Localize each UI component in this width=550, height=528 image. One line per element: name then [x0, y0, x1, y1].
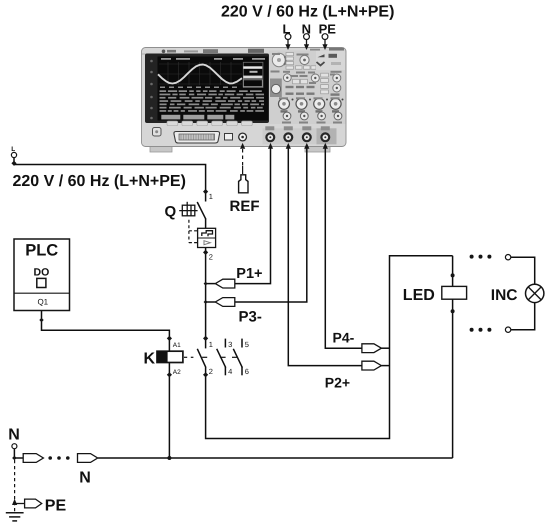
svg-text:A2: A2	[173, 369, 181, 376]
svg-text:220 V / 60 Hz (L+N+PE): 220 V / 60 Hz (L+N+PE)	[221, 4, 394, 21]
svg-text:A1: A1	[173, 342, 181, 349]
svg-text:P1+: P1+	[236, 266, 262, 282]
svg-text:PE: PE	[319, 21, 337, 36]
svg-text:P2+: P2+	[325, 375, 350, 391]
svg-text:1: 1	[209, 340, 213, 349]
svg-text:L: L	[283, 21, 291, 36]
svg-text:P3-: P3-	[239, 309, 262, 326]
svg-text:N: N	[79, 470, 91, 487]
svg-text:220 V / 60 Hz (L+N+PE): 220 V / 60 Hz (L+N+PE)	[13, 173, 186, 190]
svg-text:DO: DO	[34, 267, 50, 279]
svg-text:3: 3	[228, 340, 232, 349]
svg-text:P4-: P4-	[333, 329, 355, 345]
svg-text:L: L	[11, 146, 15, 153]
svg-text:PE: PE	[45, 498, 67, 515]
svg-text:Q: Q	[165, 204, 177, 221]
svg-text:6: 6	[245, 367, 249, 376]
svg-text:LED: LED	[403, 287, 435, 304]
svg-text:1: 1	[209, 192, 213, 201]
svg-text:PLC: PLC	[25, 242, 58, 260]
svg-text:INC: INC	[491, 287, 518, 304]
svg-text:5: 5	[245, 340, 249, 349]
svg-text:2: 2	[209, 367, 213, 376]
svg-text:4: 4	[228, 367, 232, 376]
svg-text:Q1: Q1	[37, 298, 48, 307]
svg-text:N: N	[8, 427, 20, 444]
svg-text:N: N	[302, 21, 311, 36]
svg-text:2: 2	[209, 252, 213, 261]
svg-text:K: K	[144, 350, 156, 367]
svg-text:REF: REF	[230, 198, 260, 215]
